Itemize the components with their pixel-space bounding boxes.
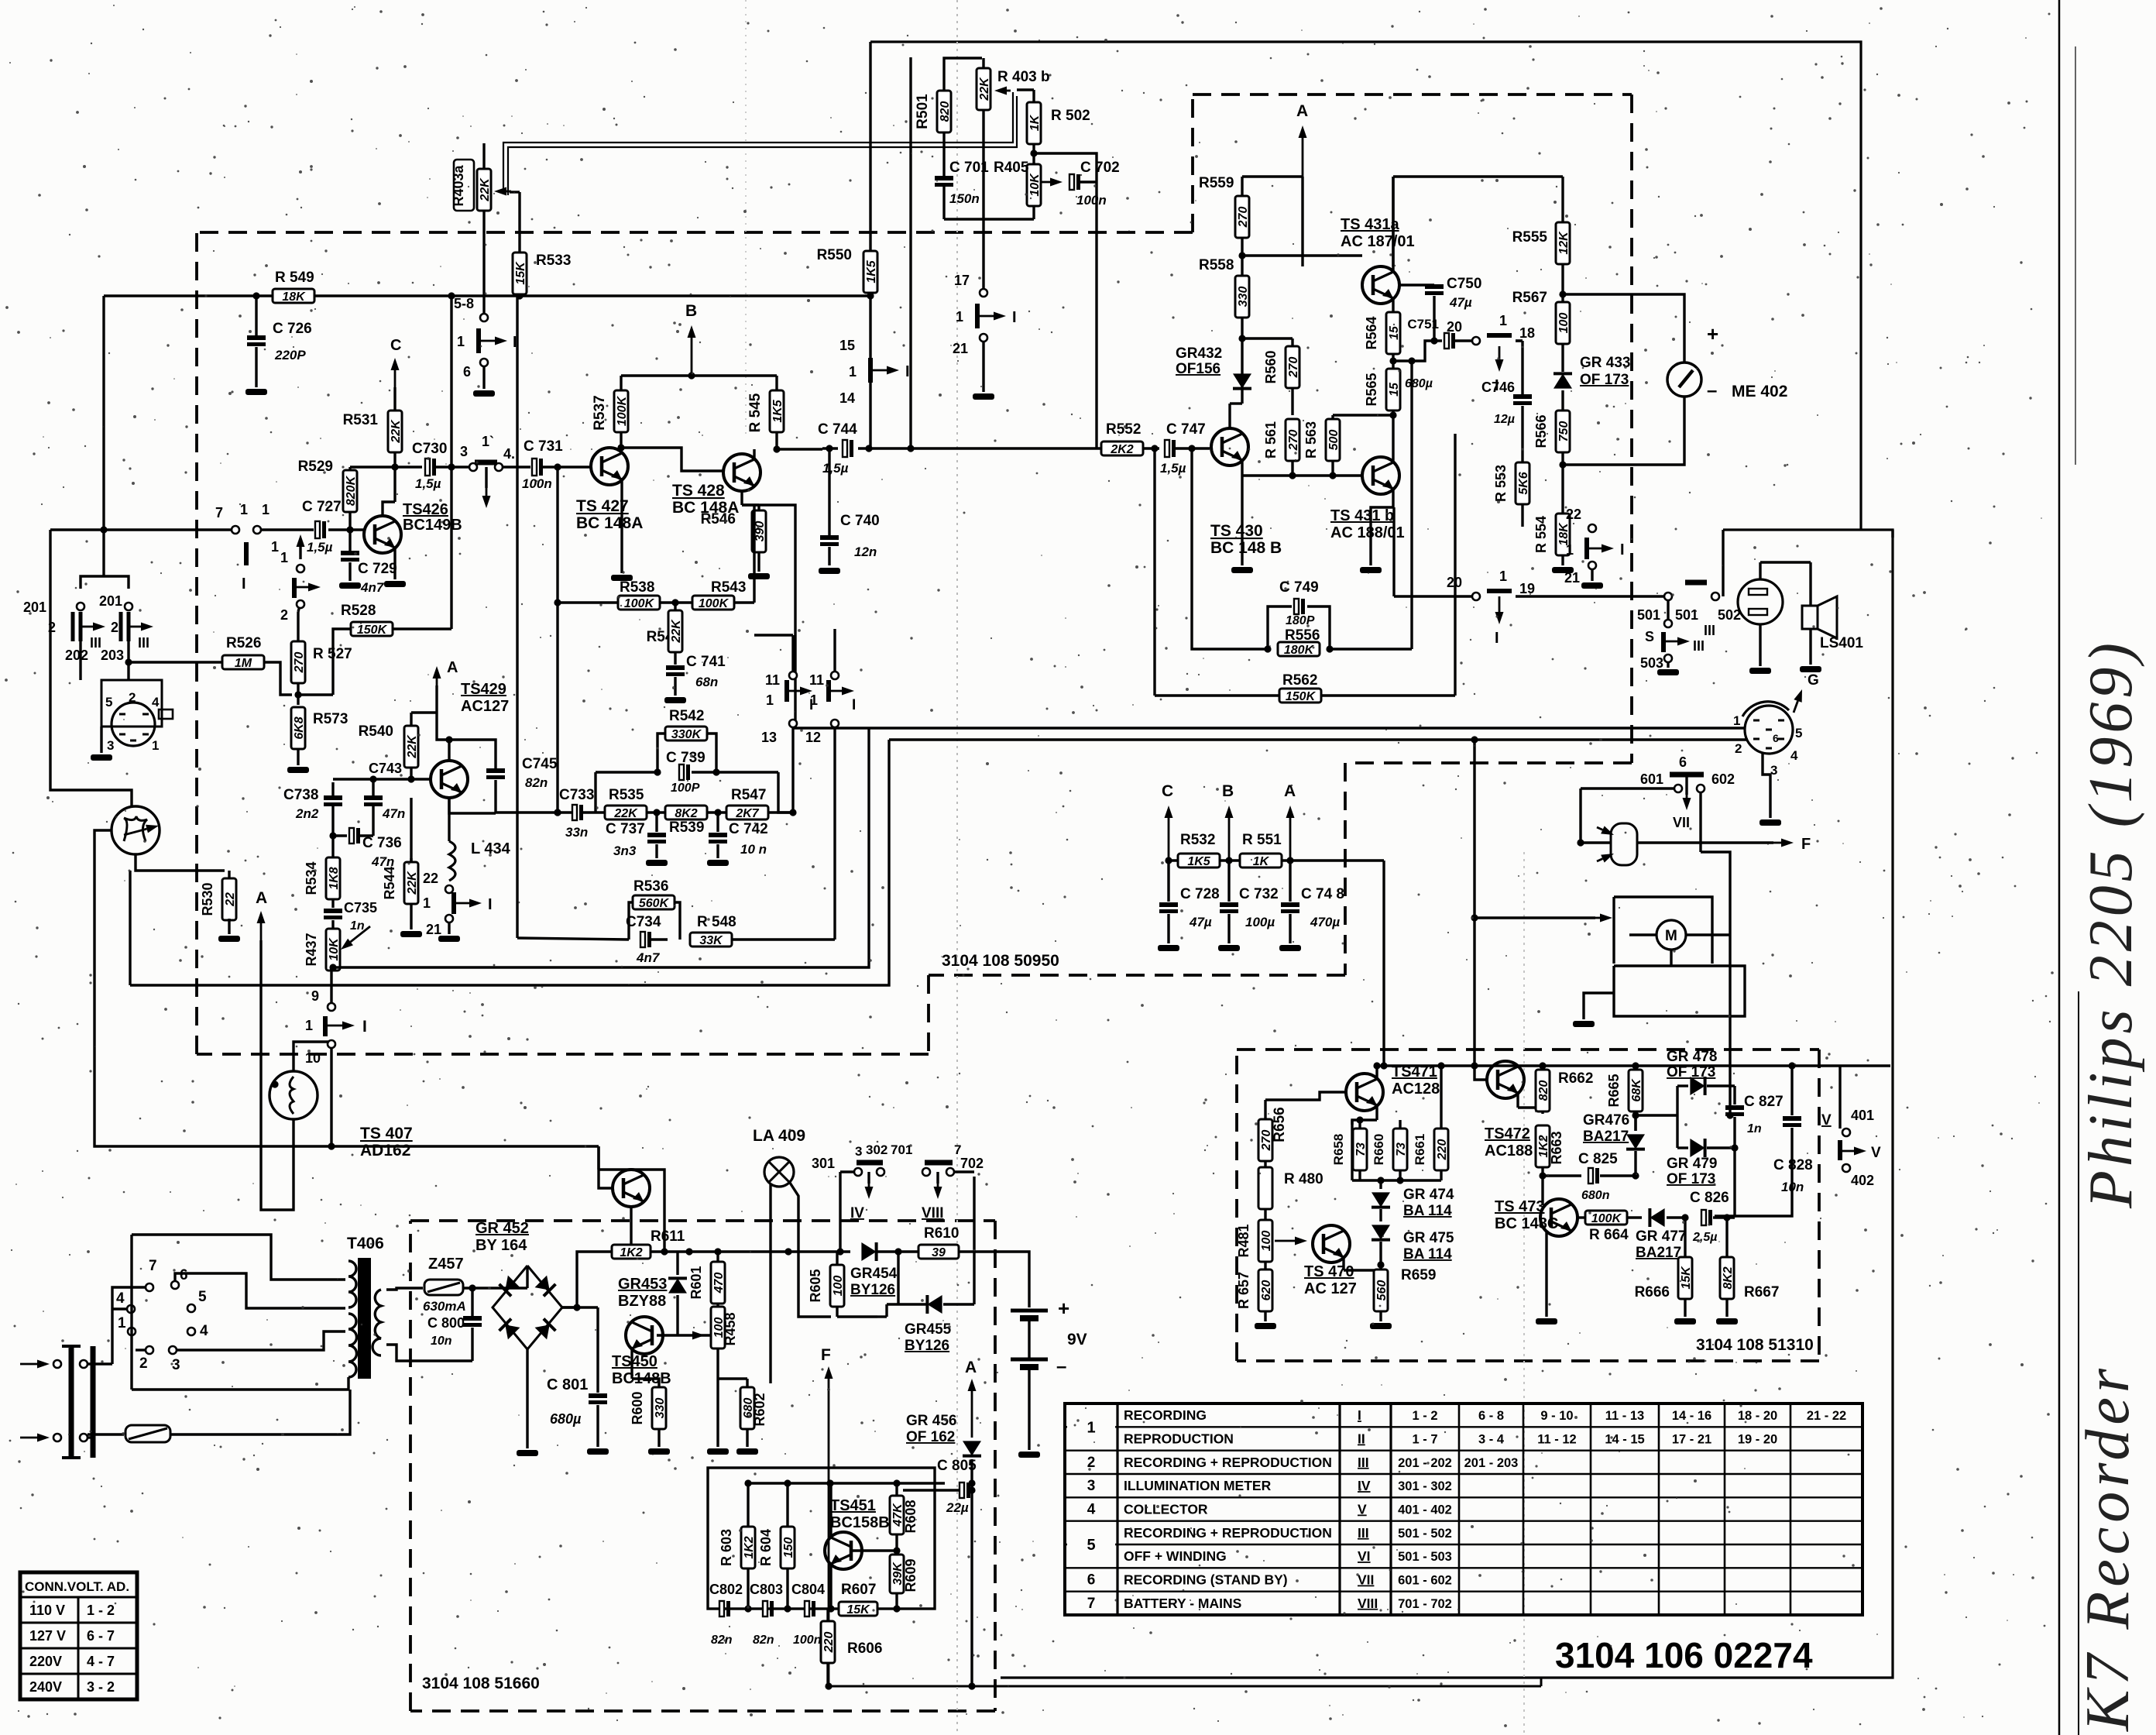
feedback C749 / R556 box [1192, 448, 1268, 649]
svg-text:4: 4 [200, 1323, 208, 1339]
svg-text:601 - 602: 601 - 602 [1398, 1574, 1452, 1588]
capacitor C726 [255, 296, 257, 336]
svg-text:1: 1 [305, 1018, 313, 1033]
wire long vertical x720 [556, 466, 558, 813]
svg-text:501: 501 [1637, 607, 1660, 623]
svg-text:V: V [1821, 1112, 1832, 1129]
svg-text:GR 456: GR 456 [906, 1413, 956, 1429]
svg-text:22: 22 [423, 871, 438, 886]
svg-text:GR 475: GR 475 [1403, 1230, 1454, 1246]
svg-text:1: 1 [956, 309, 963, 325]
svg-text:127 V: 127 V [29, 1628, 66, 1644]
ground below C748 [1279, 945, 1301, 951]
bridge diode 3 [500, 1319, 520, 1340]
svg-text:I: I [852, 697, 856, 713]
svg-text:12: 12 [805, 730, 821, 745]
ground TS430 emitter [1241, 460, 1243, 565]
transistor TS431a [1362, 266, 1399, 304]
wire 601 to erase head [1581, 787, 1674, 789]
svg-text:560K: 560K [639, 897, 670, 910]
svg-text:I: I [905, 363, 910, 380]
wire TS426 collector to R531 node [383, 502, 395, 516]
wire R538 row [558, 601, 619, 603]
record-play head [112, 806, 160, 854]
svg-text:BY126: BY126 [905, 1338, 949, 1354]
svg-text:21: 21 [1564, 570, 1580, 586]
transistor TS426 [364, 516, 401, 553]
svg-text:R609: R609 [903, 1558, 918, 1592]
svg-text:1K8: 1K8 [328, 867, 341, 889]
ground below R667 [1716, 1318, 1738, 1324]
svg-text:R606: R606 [847, 1641, 882, 1657]
wire 602 down to amplifier [1699, 792, 1701, 852]
svg-text:R 603: R 603 [719, 1529, 734, 1566]
wire switch 20-19 row y440 to C746 [1516, 339, 1523, 342]
wire left rail down to input switch [102, 296, 105, 530]
svg-text:8K2: 8K2 [675, 807, 697, 820]
coil L434 [448, 798, 450, 841]
svg-text:R611: R611 [651, 1228, 685, 1245]
svg-text:C804: C804 [791, 1582, 825, 1597]
diode GR433 [1553, 373, 1572, 388]
wire bus upper [331, 728, 869, 967]
svg-text:201: 201 [99, 593, 122, 609]
wire R663 node to C825 [1543, 1174, 1581, 1177]
svg-text:C 737: C 737 [606, 821, 645, 837]
capacitor C738 [333, 778, 350, 780]
diode GR478 body [1690, 1077, 1705, 1095]
transistor TS431b [1362, 457, 1399, 494]
wire R458 bottom rail [716, 1379, 719, 1447]
diode GR455 [897, 1252, 899, 1304]
svg-text:11 - 12: 11 - 12 [1537, 1433, 1576, 1447]
svg-text:C: C [1162, 782, 1173, 800]
svg-text:R 403 b: R 403 b [997, 69, 1050, 85]
svg-text:LS401: LS401 [1820, 635, 1863, 651]
svg-text:4: 4 [1790, 748, 1798, 763]
svg-text:330: 330 [1237, 287, 1250, 307]
svg-text:A: A [256, 889, 267, 907]
svg-text:R529: R529 [298, 459, 333, 475]
svg-text:R560: R560 [1263, 350, 1279, 383]
svg-text:GR 478: GR 478 [1667, 1049, 1717, 1065]
resistor R606 [821, 1621, 835, 1663]
svg-text:4: 4 [152, 695, 160, 709]
svg-text:7: 7 [149, 1258, 157, 1274]
svg-text:R405: R405 [994, 160, 1029, 176]
svg-text:22: 22 [224, 892, 237, 907]
svg-text:R558: R558 [1199, 257, 1234, 273]
svg-text:680n: 680n [1581, 1189, 1610, 1202]
svg-text:12K: 12K [1557, 231, 1571, 255]
headphone jack socket [1738, 579, 1783, 624]
arrow F output [1637, 841, 1773, 843]
svg-text:330: 330 [654, 1398, 667, 1419]
wire amplifier supply rail [1379, 1064, 1890, 1067]
DIN connector 401 circle [1745, 706, 1793, 754]
svg-text:10n: 10n [431, 1335, 452, 1348]
svg-text:AD162: AD162 [360, 1142, 410, 1160]
ground below DIN [1759, 819, 1781, 826]
svg-text:1: 1 [423, 895, 431, 911]
wire chain to switch 13 [791, 728, 794, 813]
svg-text:OF156: OF156 [1176, 361, 1220, 377]
svg-text:R538: R538 [620, 579, 654, 596]
svg-text:C743: C743 [369, 761, 402, 776]
svg-text:501 - 502: 501 - 502 [1398, 1527, 1452, 1541]
svg-text:R667: R667 [1744, 1284, 1779, 1300]
svg-text:82n: 82n [711, 1634, 733, 1647]
svg-text:C: C [390, 337, 401, 354]
wire TS407 emitter [630, 1207, 632, 1252]
wire A line down to lamp [261, 940, 294, 1210]
svg-text:1: 1 [1499, 569, 1507, 584]
svg-text:5: 5 [105, 695, 112, 709]
resistor R660 [1393, 1129, 1407, 1170]
svg-text:III: III [1704, 623, 1715, 638]
svg-text:6 - 8: 6 - 8 [1478, 1409, 1504, 1423]
svg-text:820: 820 [1537, 1081, 1550, 1101]
svg-text:150n: 150n [949, 191, 980, 206]
mic connector DIN 201 circle [112, 703, 155, 746]
switch contact III 201-203 [119, 612, 123, 641]
arrow wiper into R403b from double wire [1007, 90, 1011, 92]
resistor R527 [291, 641, 305, 683]
resistor R663 [1536, 1125, 1550, 1167]
svg-text:TS451: TS451 [830, 1497, 876, 1514]
wire mic connector top [81, 576, 129, 589]
svg-text:CONN.VOLT. AD.: CONN.VOLT. AD. [25, 1579, 129, 1594]
ground below switch 21 oscillator [438, 936, 460, 942]
svg-text:100P: 100P [671, 782, 700, 795]
svg-text:1: 1 [280, 550, 288, 565]
svg-text:680µ: 680µ [550, 1411, 582, 1427]
ground below C728 [1158, 945, 1179, 951]
svg-text:III: III [90, 635, 101, 651]
diode GR432 [1241, 364, 1243, 404]
oscillator feedback box TS451 [708, 1468, 935, 1609]
wire supply distribution [1169, 859, 1384, 861]
wire meter plus branch [1563, 294, 1684, 362]
wire switch 10 down to bottom wire [330, 1048, 332, 1146]
svg-text:14: 14 [839, 390, 855, 406]
resistor R602 [740, 1387, 754, 1429]
resistor R542 in loop [657, 734, 665, 772]
mic connector DIN 201 box [101, 680, 162, 727]
board 3104 108 51310 dashed outline (output amplifier) [1237, 1048, 1819, 1051]
svg-text:100K: 100K [1591, 1212, 1622, 1225]
resistor R537 [614, 390, 628, 432]
motor governor bracket lower [1614, 966, 1745, 1016]
bridge diode 2 [535, 1276, 556, 1297]
meter ME402 [1667, 362, 1701, 397]
svg-text:R564: R564 [1364, 316, 1379, 349]
resistor R502 [1027, 102, 1041, 144]
svg-text:7: 7 [215, 505, 223, 520]
transistor TS427 [591, 448, 628, 485]
svg-text:301 - 302: 301 - 302 [1398, 1479, 1452, 1493]
svg-text:OFF + WINDING: OFF + WINDING [1124, 1548, 1227, 1564]
svg-text:10: 10 [305, 1050, 321, 1066]
diode GR477 [1650, 1208, 1664, 1227]
fuse in mains lead [88, 1436, 93, 1438]
resistor R656 [1264, 1100, 1266, 1120]
wire lamp top to switch 10 [294, 1042, 328, 1072]
wire TS450 base from R458 divider [657, 1334, 711, 1336]
svg-text:R607: R607 [841, 1582, 876, 1598]
svg-text:100K: 100K [699, 597, 730, 610]
arrow A supply at top [1302, 138, 1304, 177]
arrow A mid-left [260, 923, 263, 940]
wire feed to R555 [1393, 175, 1563, 177]
svg-text:GR 452: GR 452 [475, 1220, 529, 1237]
svg-text:3104 106 02274: 3104 106 02274 [1555, 1635, 1813, 1675]
svg-text:R666: R666 [1635, 1284, 1670, 1300]
ground below R458 [707, 1448, 729, 1455]
svg-text:3: 3 [855, 1144, 862, 1159]
wire TS451 base to divider [852, 1549, 897, 1551]
svg-text:630mA: 630mA [423, 1299, 466, 1314]
svg-text:C 731: C 731 [524, 438, 563, 455]
switch contact 501-501-502 [1664, 593, 1672, 600]
svg-text:AC 187/01: AC 187/01 [1341, 233, 1415, 250]
svg-text:1K: 1K [1253, 855, 1270, 868]
svg-text:6 - 7: 6 - 7 [87, 1628, 115, 1644]
svg-text:VIII: VIII [1358, 1596, 1378, 1611]
ground below R546 [748, 573, 770, 579]
svg-text:R658: R658 [1331, 1134, 1346, 1166]
svg-text:9 - 10: 9 - 10 [1540, 1409, 1573, 1423]
svg-text:4.: 4. [503, 446, 515, 462]
svg-text:II: II [1358, 1431, 1365, 1447]
resistor R544 [404, 862, 418, 904]
wire switch 9 up to bus [330, 967, 332, 1003]
wire C727 to TS426 base [346, 526, 353, 533]
transistor TS429 [431, 761, 468, 798]
svg-text:1: 1 [1499, 313, 1507, 328]
svg-text:18K: 18K [282, 290, 306, 304]
svg-text:21 - 22: 21 - 22 [1807, 1409, 1846, 1423]
svg-text:68K: 68K [1630, 1078, 1643, 1102]
svg-text:470µ: 470µ [1310, 915, 1340, 929]
svg-text:R608: R608 [903, 1500, 918, 1533]
svg-text:R530: R530 [200, 882, 215, 916]
svg-text:TS 431a: TS 431a [1341, 216, 1399, 233]
svg-text:1: 1 [849, 364, 857, 380]
arrow G at DIN [1794, 701, 1797, 713]
arrow wiper into R403a [506, 191, 511, 193]
svg-text:C750: C750 [1447, 276, 1481, 292]
svg-text:R567: R567 [1512, 290, 1547, 306]
svg-text:R403a: R403a [451, 164, 466, 206]
svg-text:240V: 240V [29, 1679, 62, 1695]
wire bias node y603 [350, 466, 422, 468]
svg-text:R 502: R 502 [1051, 108, 1090, 124]
capacitor C751 [1444, 333, 1449, 349]
svg-text:R437: R437 [304, 933, 319, 966]
svg-text:AC 127: AC 127 [1304, 1280, 1357, 1297]
svg-text:R 480: R 480 [1284, 1171, 1323, 1187]
svg-text:3: 3 [1087, 1478, 1096, 1494]
svg-text:1`: 1` [482, 434, 494, 449]
svg-text:R565: R565 [1364, 373, 1379, 406]
svg-text:C 732: C 732 [1239, 886, 1279, 902]
svg-text:R535: R535 [609, 787, 644, 803]
svg-text:150K: 150K [357, 624, 388, 637]
svg-text:R533: R533 [536, 253, 571, 269]
svg-text:1 - 2: 1 - 2 [87, 1603, 115, 1618]
svg-text:R536: R536 [633, 878, 668, 895]
svg-text:LA 409: LA 409 [753, 1127, 805, 1145]
svg-text:6: 6 [1773, 732, 1779, 744]
wire R403a to switch 5-8 [482, 211, 485, 313]
resistor R664 [1585, 1211, 1627, 1225]
svg-text:201 - 202: 201 - 202 [1398, 1456, 1452, 1470]
wire top supply rail [870, 42, 1861, 530]
svg-text:A: A [1296, 102, 1308, 120]
svg-text:21: 21 [426, 922, 441, 937]
svg-text:1: 1 [1566, 542, 1574, 558]
svg-text:C 728: C 728 [1180, 886, 1220, 902]
svg-text:COLLECTOR: COLLECTOR [1124, 1502, 1208, 1517]
resistor R536 in loop [629, 902, 633, 940]
svg-text:22K: 22K [406, 871, 419, 895]
function table grid [1065, 1403, 1862, 1615]
svg-text:15: 15 [839, 338, 855, 353]
resistor R558 [1235, 276, 1249, 318]
scan fold line [956, 0, 958, 1735]
svg-text:R544: R544 [382, 866, 397, 899]
svg-text:500: 500 [1327, 430, 1341, 451]
svg-text:R 553: R 553 [1493, 465, 1509, 502]
svg-text:502: 502 [1718, 607, 1741, 623]
ground below switch 6 [473, 390, 495, 397]
resistor R608 [890, 1496, 904, 1534]
svg-text:R543: R543 [711, 579, 746, 596]
resistor R566 [1556, 411, 1570, 452]
ground below R602 [736, 1448, 758, 1455]
svg-text:C 726: C 726 [273, 321, 312, 337]
svg-text:15: 15 [1388, 325, 1401, 340]
svg-text:470: 470 [712, 1273, 726, 1294]
svg-text:GR453: GR453 [618, 1276, 667, 1293]
svg-text:100n: 100n [522, 476, 552, 491]
svg-text:1K5: 1K5 [1187, 855, 1210, 868]
svg-text:5: 5 [198, 1289, 207, 1305]
svg-text:R540: R540 [359, 723, 393, 740]
resistor R565 [1386, 369, 1400, 411]
svg-text:TS 431 b: TS 431 b [1330, 507, 1394, 524]
svg-text:R 604: R 604 [758, 1529, 774, 1566]
svg-text:1M: 1M [235, 657, 252, 670]
ground below TS431b emitter [1360, 567, 1382, 573]
capacitor C730 [425, 459, 430, 476]
svg-text:2n2: 2n2 [295, 806, 319, 821]
svg-text:TS472: TS472 [1485, 1125, 1530, 1142]
svg-text:BA217: BA217 [1636, 1245, 1681, 1261]
svg-text:C 744: C 744 [818, 421, 857, 438]
capacitor C702 [1041, 181, 1050, 184]
svg-text:A: A [965, 1359, 977, 1376]
svg-text:5-8: 5-8 [454, 296, 474, 311]
svg-text:15K: 15K [846, 1603, 870, 1616]
svg-text:6: 6 [463, 364, 471, 380]
svg-text:R663: R663 [1549, 1131, 1564, 1164]
svg-text:82n: 82n [525, 775, 548, 790]
table merged cell covers [1067, 1419, 1115, 1434]
svg-text:BC 148 B: BC 148 B [1210, 539, 1282, 557]
svg-text:33K: 33K [699, 934, 723, 947]
svg-text:C 74 8: C 74 8 [1301, 886, 1344, 902]
svg-text:R 549: R 549 [275, 270, 314, 286]
svg-text:100: 100 [1260, 1231, 1273, 1252]
svg-text:47n: 47n [382, 806, 405, 821]
svg-text:R547: R547 [731, 787, 766, 803]
wire driver chain node [1634, 1115, 1636, 1131]
svg-text:6K8: 6K8 [293, 716, 306, 739]
wire speaker bus vertical [1891, 530, 1893, 538]
capacitor C733 [572, 805, 577, 820]
capacitor C746 [1513, 394, 1532, 399]
svg-text:47µ: 47µ [1449, 295, 1472, 310]
wire signal line y579 [822, 447, 838, 449]
resistor R657 [1258, 1269, 1272, 1311]
arrow C supply rail [1168, 818, 1170, 861]
svg-text:GR 479: GR 479 [1667, 1156, 1717, 1172]
svg-text:22K: 22K [613, 807, 638, 820]
svg-text:1: 1 [240, 502, 248, 517]
potentiometer R403b [977, 68, 990, 110]
svg-text:C 702: C 702 [1080, 160, 1120, 176]
wire output node to C751 [1393, 359, 1412, 362]
svg-text:302: 302 [866, 1142, 887, 1157]
resistor R549 [273, 289, 314, 303]
wire pin3 to winding [177, 1331, 345, 1350]
wire TS407 collector loop [599, 1170, 664, 1252]
svg-text:REPRODUCTION: REPRODUCTION [1124, 1431, 1234, 1447]
svg-text:6: 6 [1087, 1572, 1096, 1589]
ground below C729 [339, 582, 361, 589]
ground below bridge [517, 1450, 538, 1456]
svg-text:TS429: TS429 [461, 681, 506, 698]
resistor R563 [1326, 419, 1340, 461]
svg-text:5: 5 [1795, 726, 1802, 740]
svg-text:82n: 82n [753, 1634, 774, 1647]
resistor R540 [404, 726, 418, 768]
svg-text:VII: VII [1358, 1572, 1374, 1588]
potentiometer R403a [454, 160, 474, 211]
ground TS427 emitter [620, 479, 623, 573]
wire output top link [1722, 530, 1724, 596]
svg-text:3n3: 3n3 [613, 843, 637, 858]
wire R536 section [517, 938, 629, 940]
svg-text:C734: C734 [626, 914, 661, 930]
svg-text:1 - 7: 1 - 7 [1412, 1433, 1437, 1447]
ground below R657 [1255, 1323, 1276, 1329]
svg-text:+: + [1707, 322, 1718, 345]
transistor TS430 [1211, 428, 1248, 466]
svg-text:C745: C745 [522, 756, 558, 772]
svg-text:503: 503 [1640, 655, 1663, 671]
transistor TS472 [1487, 1061, 1524, 1098]
wire R502 bottom node [1034, 153, 1097, 448]
transistor TS407 [613, 1170, 650, 1207]
svg-text:I: I [1358, 1407, 1361, 1423]
svg-text:ILLUMINATION METER: ILLUMINATION METER [1124, 1478, 1272, 1493]
svg-text:III: III [1358, 1455, 1369, 1470]
svg-text:R526: R526 [226, 635, 261, 651]
svg-text:R660: R660 [1372, 1134, 1386, 1166]
